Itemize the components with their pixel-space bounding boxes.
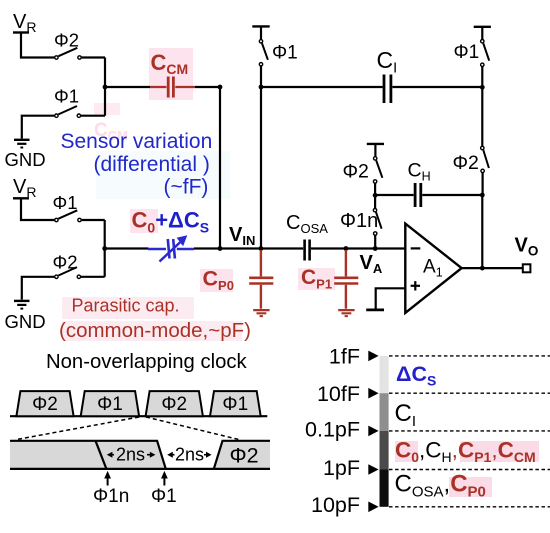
svg-text:Φ1: Φ1 [53,192,78,213]
svg-text:Φ2: Φ2 [53,252,78,273]
svg-text:C0+ΔCS: C0+ΔCS [132,208,210,236]
svg-text:2ns: 2ns [116,445,145,465]
svg-text:GND: GND [5,311,46,332]
svg-text:Φ1: Φ1 [454,42,480,63]
svg-text:Φ2: Φ2 [230,443,259,467]
svg-text:Φ1n: Φ1n [93,486,129,507]
svg-text:10fF: 10fF [317,382,360,406]
svg-text:Φ2: Φ2 [161,394,187,415]
svg-text:Φ2: Φ2 [343,161,369,183]
svg-text:Parasitic cap.: Parasitic cap. [72,295,180,315]
svg-text:Φ1: Φ1 [54,85,79,106]
svg-text:Non-overlapping clock: Non-overlapping clock [46,351,248,373]
svg-text:Φ2: Φ2 [32,394,58,415]
svg-text:Sensor variation: Sensor variation [61,130,213,153]
svg-text:Φ2: Φ2 [54,29,79,50]
svg-text:Φ1: Φ1 [222,394,248,415]
svg-text:(~fF): (~fF) [164,175,209,198]
svg-text:Φ1: Φ1 [151,486,177,507]
svg-text:10pF: 10pF [311,493,360,517]
svg-text:1pF: 1pF [323,456,360,480]
svg-text:Φ2: Φ2 [453,152,479,174]
svg-text:Φ1n: Φ1n [340,210,378,232]
svg-text:(common-mode,~pF): (common-mode,~pF) [59,319,251,342]
svg-text:1fF: 1fF [329,345,360,369]
svg-text:Φ1: Φ1 [272,43,298,64]
svg-text:Φ1: Φ1 [97,394,123,415]
svg-text:GND: GND [5,149,46,170]
svg-text:0.1pF: 0.1pF [305,417,360,441]
svg-text:(differential ): (differential ) [94,153,210,176]
svg-text:2ns: 2ns [175,445,204,465]
